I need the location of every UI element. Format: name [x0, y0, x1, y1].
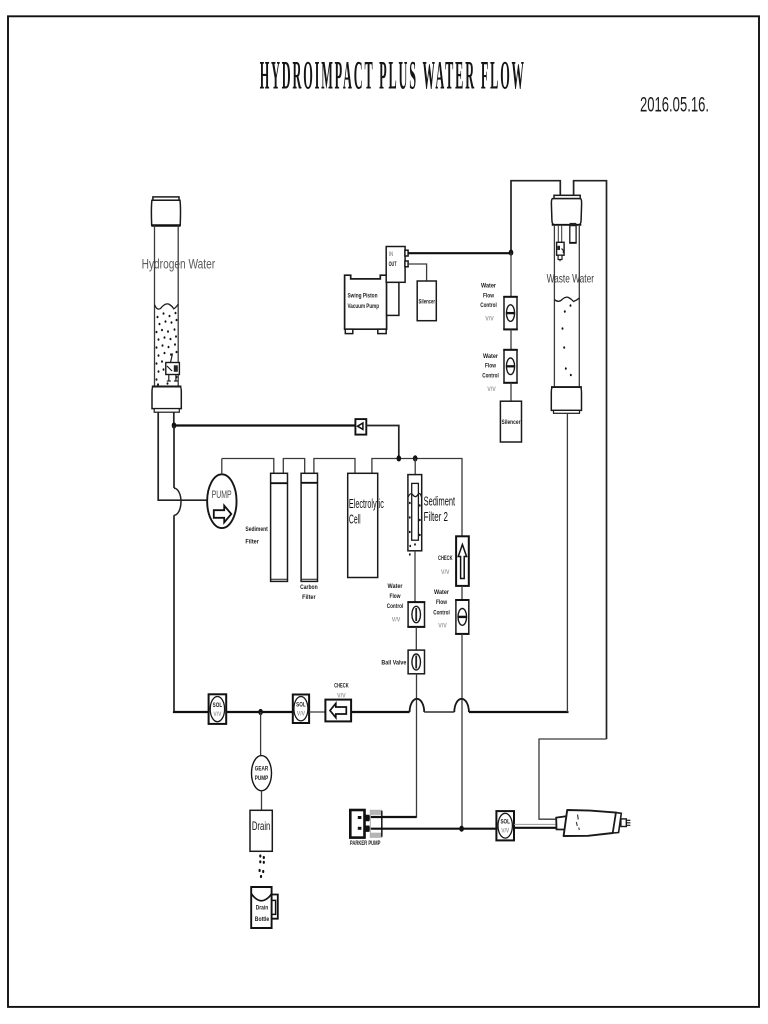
waste tank inner right tube [570, 226, 576, 243]
sol valve box 1 [209, 694, 227, 724]
waste tank inner right tube tab [570, 223, 577, 226]
svg-text:Silencer: Silencer [502, 419, 521, 426]
hydrogen tank bottom lip [154, 409, 179, 413]
wire check box to hop1 [351, 711, 410, 713]
parker pump port top [365, 815, 371, 821]
waste tank bubbles [562, 304, 572, 376]
wire sediment to carbon [283, 459, 304, 474]
check valve triangle [358, 423, 363, 429]
waste tank inner left tube [557, 225, 559, 243]
hydrogen tank top cap [151, 200, 180, 225]
handle nozzle prongs [626, 819, 630, 821]
svg-text:SOL: SOL [296, 702, 306, 708]
wire waste tank riser [566, 413, 568, 712]
sediment filter 2 wavy [408, 494, 422, 498]
svg-text:Flow: Flow [436, 599, 448, 606]
wire vacuum port2 to silencer [408, 264, 427, 281]
wire between hops [424, 711, 454, 713]
waste tank float tip [558, 255, 562, 259]
svg-text:Water: Water [434, 589, 449, 596]
svg-text:Swing Piston: Swing Piston [348, 294, 378, 300]
water flow control V/V box 1 [504, 297, 517, 330]
hydrogen tank float valve [166, 354, 180, 382]
svg-text:Water: Water [481, 283, 496, 290]
svg-text:Control: Control [387, 603, 404, 610]
svg-text:Water: Water [483, 353, 498, 360]
hydrogen tank walls [154, 226, 156, 387]
node junction vacuum out [509, 250, 514, 256]
node junction handle line [459, 826, 464, 832]
waste tank cap bottom edge [552, 224, 582, 226]
svg-text:V/V: V/V [441, 569, 450, 576]
svg-text:HYDROIMPACT PLUS WATER FLOW: HYDROIMPACT PLUS WATER FLOW [260, 53, 526, 98]
waste tank top lip [554, 195, 580, 198]
svg-text:Filter: Filter [245, 539, 259, 546]
wire check line left [174, 424, 355, 426]
gear pump ellipse [252, 756, 272, 791]
waste tank bottom cap top edge [551, 386, 582, 388]
silencer (right) box [500, 401, 521, 442]
wire hop2 to waste tank riser [469, 711, 568, 712]
vacuum pump port 2 [405, 261, 408, 267]
node junction gear pump [258, 709, 263, 715]
check valve inline box [355, 419, 366, 435]
wire carbon to cell [314, 459, 355, 474]
waste water level wavy line [554, 297, 579, 301]
svg-text:Control: Control [482, 372, 499, 379]
svg-text:Drain: Drain [252, 819, 271, 833]
svg-text:GEAR: GEAR [255, 767, 269, 773]
svg-text:Flow: Flow [483, 292, 495, 299]
check up arrow [458, 545, 466, 579]
wire tank right outlet to junction [173, 412, 175, 425]
wire filter2 to wfc [414, 551, 416, 602]
svg-text:SOL: SOL [500, 819, 510, 825]
pump arrow [214, 506, 232, 523]
waste tank float switch [557, 242, 565, 255]
svg-text:Sediment: Sediment [424, 493, 456, 508]
wire ball valve down to parker elbow [371, 674, 417, 817]
wire hop over left column [410, 699, 425, 712]
wire parker top port line [371, 816, 417, 818]
svg-text:Cell: Cell [349, 511, 361, 526]
waste tank bottom cap [551, 387, 581, 410]
svg-text:Bottle: Bottle [255, 916, 270, 923]
hydrogen tank bubbles [156, 312, 178, 386]
water flow control box (right col) [456, 600, 469, 634]
svg-text:V/V: V/V [392, 617, 401, 624]
sol valve box 3 [496, 811, 514, 840]
wire sol1 to sol2 [226, 711, 293, 713]
svg-text:Flow: Flow [390, 593, 402, 600]
wire top manifold left segment [511, 181, 560, 253]
wire wfc2 to silencer [510, 383, 512, 401]
vacuum pump IN/OUT box [386, 247, 405, 283]
sediment filter body [271, 473, 288, 581]
svg-text:Vacuum Pump: Vacuum Pump [348, 304, 380, 310]
sediment filter 2 inner tube [412, 483, 419, 540]
vacuum pump foot left [345, 329, 353, 333]
svg-text:V/V: V/V [213, 712, 221, 718]
handle nozzle [621, 819, 626, 827]
wire top manifold right segment [574, 181, 607, 739]
wire wfc down to parker line [461, 634, 463, 829]
wire check to wfc [461, 586, 463, 600]
vacuum pump port 1 [405, 250, 408, 256]
drain drip dots [259, 854, 265, 878]
handle tiny marks [576, 815, 579, 831]
wire wfc1 to wfc2 [510, 329, 512, 349]
svg-text:V/V: V/V [438, 623, 447, 630]
svg-text:Water: Water [388, 583, 403, 590]
silencer (vacuum pump) box [417, 281, 436, 321]
svg-text:Carbon: Carbon [300, 584, 318, 591]
node junction filter2 [413, 455, 418, 461]
wire sol3 to handle [514, 827, 558, 829]
svg-text:V/V: V/V [297, 712, 305, 718]
svg-text:Silencer: Silencer [419, 299, 436, 306]
drain bottle handle [272, 895, 278, 919]
svg-text:V/V: V/V [337, 692, 346, 699]
sediment filter bottom inner line [271, 578, 288, 580]
wire pump top [221, 459, 223, 475]
svg-text:2016.05.16.: 2016.05.16. [640, 94, 709, 117]
parker pump port bottom [365, 826, 371, 832]
wire vacuum out to junction [408, 252, 511, 254]
wire hop over pump suction line [174, 488, 181, 515]
wire parker bottom line [371, 828, 497, 830]
drain box [250, 810, 272, 851]
hydrogen water level wavy line [155, 304, 179, 309]
svg-text:V/V: V/V [485, 316, 494, 323]
wire hop over right column [454, 699, 469, 712]
wire cell to filter2 and check column [372, 459, 462, 537]
sediment filter 2 dots [409, 502, 421, 556]
wire row pump to sediment filter [222, 459, 274, 474]
handle body [564, 810, 616, 836]
electrolytic cell body [348, 473, 378, 577]
vacuum pump head [387, 282, 399, 315]
svg-text:Filter 2: Filter 2 [424, 509, 448, 524]
drain bottle water level [251, 894, 271, 901]
wire handle feed [539, 739, 607, 819]
svg-text:SOL: SOL [213, 703, 223, 709]
wire check line right [366, 426, 399, 459]
sediment filter cap line [271, 482, 288, 484]
svg-text:Waste Water: Waste Water [547, 271, 594, 285]
check left arrow [330, 703, 346, 717]
pump ellipse [207, 474, 236, 528]
wire tank left outlet down and to pump [158, 412, 207, 500]
wire vertical to bottom main line with hop [173, 426, 175, 489]
drain bottle body [251, 887, 271, 928]
handle end cap [613, 813, 622, 833]
svg-text:V/V: V/V [487, 386, 496, 393]
handle connector [556, 816, 570, 830]
waste tank bottom lip [554, 410, 580, 413]
vacuum pump body [345, 275, 387, 329]
carbon filter cap line [301, 482, 317, 484]
wire wfc to ball valve [415, 627, 417, 650]
hydrogen tank cap bottom edge [152, 224, 181, 226]
svg-text:CHECK: CHECK [438, 555, 453, 562]
vacuum pump foot right [378, 329, 386, 333]
hydrogen tank top lip [153, 197, 179, 200]
check V/V up arrow box [456, 536, 469, 586]
waste tank walls [553, 225, 555, 387]
node junction check line [397, 455, 402, 461]
hydrogen tank bottom cap top edge [152, 386, 182, 388]
parker pump right housing [370, 810, 381, 837]
wire bottom main left [174, 710, 209, 713]
svg-text:Hydrogen Water: Hydrogen Water [142, 255, 216, 271]
svg-text:Control: Control [433, 609, 450, 616]
parker pump body [350, 810, 364, 838]
carbon filter bottom inner line [301, 578, 317, 580]
node junction tank outlet [172, 422, 177, 428]
wire sol2 to check box [309, 711, 325, 713]
svg-text:Flow: Flow [485, 363, 497, 370]
wire junction to gear pump [260, 712, 262, 756]
svg-text:Control: Control [480, 302, 497, 309]
sediment filter 2 outer body [408, 475, 422, 551]
water flow control box (left col) [408, 602, 424, 627]
svg-text:CHECK: CHECK [334, 683, 349, 690]
svg-text:OUT: OUT [389, 262, 397, 268]
svg-text:Ball Valve: Ball Valve [381, 659, 406, 666]
svg-text:Filter: Filter [302, 594, 316, 601]
svg-text:PARKER PUMP: PARKER PUMP [350, 840, 381, 847]
svg-text:PUMP: PUMP [212, 489, 232, 501]
waste tank top cap [551, 199, 581, 225]
check V/V left arrow box [325, 700, 351, 722]
svg-text:V/V: V/V [501, 829, 509, 835]
wire junction to filter2 [414, 459, 416, 484]
svg-text:PUMP: PUMP [255, 776, 269, 782]
wire gear pump to drain [261, 791, 263, 811]
sol valve box 2 [293, 695, 309, 724]
svg-text:Sediment: Sediment [245, 526, 268, 533]
ball valve box [408, 650, 424, 674]
wire junction to wfc1 [510, 253, 512, 297]
svg-text:Drain: Drain [256, 905, 269, 912]
svg-text:IN: IN [389, 252, 394, 258]
svg-text:Electrolytic: Electrolytic [349, 496, 384, 511]
parker pump inner dots [358, 816, 362, 819]
water flow control V/V box 2 [504, 350, 517, 383]
hydrogen tank bottom cap [152, 387, 181, 409]
carbon filter body [301, 473, 317, 581]
